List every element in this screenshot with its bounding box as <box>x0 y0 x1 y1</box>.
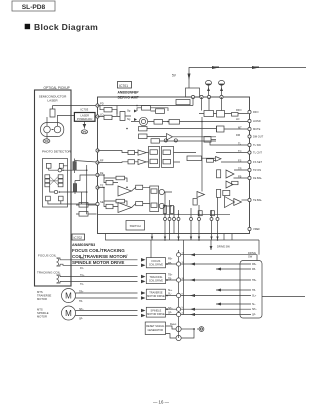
svg-text:SPINDLE: SPINDLE <box>37 311 49 315</box>
left pin P4 <box>96 173 99 176</box>
photodiode A <box>46 163 51 168</box>
left pin P1 <box>96 104 99 107</box>
comparator2 <box>226 181 233 188</box>
sled long box <box>187 156 221 162</box>
defect comparator <box>226 170 234 178</box>
svg-text:TL CNT: TL CNT <box>253 151 262 155</box>
svg-text:DM: DM <box>236 133 240 137</box>
svg-text:— 16 —: — 16 — <box>153 400 170 405</box>
svg-text:SP+: SP+ <box>252 308 257 311</box>
semiconductor laser label <box>39 95 67 103</box>
vertical bus right of drivers <box>178 250 180 338</box>
long lines to connector <box>181 264 251 315</box>
regulator block inside top <box>176 100 190 105</box>
svg-text:RFO: RFO <box>253 110 258 114</box>
left pin P3a <box>96 149 99 152</box>
tracking amp triangle <box>118 203 132 213</box>
transistor Q1 <box>117 106 131 121</box>
svg-text:TB+: TB+ <box>252 279 257 282</box>
connector reset out <box>197 327 204 332</box>
focus coil drive block <box>146 258 165 268</box>
svg-text:TE BAL: TE BAL <box>253 198 262 202</box>
EQ resistor r5 <box>154 120 163 125</box>
svg-text:MOTOR DRIVE: MOTOR DRIVE <box>147 313 165 316</box>
left pin labels <box>100 102 104 205</box>
VCA amp circle <box>131 117 154 125</box>
traverse motor M1 <box>37 289 76 303</box>
bus drop right to connector <box>258 240 260 255</box>
focus amp triangle <box>118 186 132 196</box>
svg-text:POWER ADJ: POWER ADJ <box>77 117 93 121</box>
wire spindle - <box>76 315 138 317</box>
filter block on +B <box>186 88 200 97</box>
defect hold rect <box>151 139 160 143</box>
wire traverse - <box>76 297 138 299</box>
sig labels <box>127 111 131 122</box>
right pin column with labels <box>248 110 251 230</box>
svg-text:FC+: FC+ <box>80 257 85 260</box>
left pin P5 <box>96 186 99 189</box>
tracking coil drive block <box>146 273 165 283</box>
photodiode E <box>46 196 51 201</box>
defect cap <box>217 170 221 178</box>
wires mid band <box>98 151 197 163</box>
svg-text:SP-: SP- <box>168 312 172 315</box>
wires focus path <box>98 175 150 191</box>
svg-text:LD: LD <box>100 113 103 117</box>
capacitor C702 <box>219 80 225 97</box>
wires tracking path <box>98 188 150 208</box>
svg-text:FB+: FB+ <box>168 258 173 261</box>
svg-text:RFO: RFO <box>236 108 241 112</box>
resistor R701 <box>73 159 77 174</box>
IC702 label <box>72 234 128 265</box>
capacitor C701 <box>206 80 212 97</box>
wire PD array out1 <box>50 187 87 194</box>
svg-text:SE: SE <box>100 200 104 204</box>
+B supply line top <box>172 66 306 88</box>
svg-text:SPINDLE: SPINDLE <box>151 310 162 313</box>
svg-text:RESET SIGNAL: RESET SIGNAL <box>146 325 165 328</box>
att block <box>204 137 216 143</box>
cap C10 <box>164 139 167 142</box>
svg-text:AN8803NFB3: AN8803NFB3 <box>72 243 95 247</box>
resistor R702 <box>73 181 77 195</box>
svg-text:SP+: SP+ <box>79 308 84 311</box>
svg-text:RF: RF <box>100 159 104 163</box>
svg-text:TRACKING COIL: TRACKING COIL <box>37 271 61 275</box>
svg-text:FB-: FB- <box>168 262 172 265</box>
top pin T2 <box>200 95 203 98</box>
internal bottom pins circles <box>164 218 220 221</box>
svg-text:TR ON: TR ON <box>253 168 261 172</box>
focus hold amp <box>138 150 146 155</box>
svg-text:FE: FE <box>100 171 104 175</box>
transistor Q703 <box>166 323 182 332</box>
internal vertical drops <box>165 192 218 218</box>
switch block <box>126 221 145 231</box>
resistor bottom r3 <box>163 206 166 214</box>
drive sw label2 <box>248 251 256 259</box>
svg-text:LASER: LASER <box>47 99 58 103</box>
junction dots bus <box>164 239 218 241</box>
resistor R704 <box>79 212 88 217</box>
RF amp resistor 2 <box>104 115 112 119</box>
wire R702 to pin <box>75 175 97 181</box>
svg-text:LD/SD: LD/SD <box>253 119 261 123</box>
svg-text:TB-: TB- <box>168 277 172 280</box>
top pin T3 <box>207 95 210 98</box>
drive sw line <box>181 255 257 261</box>
left pin P2 <box>96 115 99 118</box>
wires right area verticals <box>193 97 222 192</box>
servo gain rect A <box>128 150 135 154</box>
svg-text:SP+: SP+ <box>168 307 173 310</box>
amp A2 <box>167 134 173 141</box>
sub box EQ2 <box>162 146 174 167</box>
svg-text:DRIVE SW: DRIVE SW <box>217 245 230 249</box>
junction dot reset <box>193 328 195 330</box>
svg-text:TRAVERSE: TRAVERSE <box>149 292 163 295</box>
svg-text:SP-: SP- <box>252 314 256 317</box>
svg-text:LASER: LASER <box>80 113 89 117</box>
IC701 label servo amp <box>118 82 140 100</box>
pin numbers on bus <box>182 253 185 315</box>
sig arrows <box>134 110 137 122</box>
svg-text:FOCUS COIL: FOCUS COIL <box>38 254 57 258</box>
wire sled out <box>262 296 305 298</box>
svg-text:COIL DRIVE: COIL DRIVE <box>149 264 163 267</box>
wire PD F out <box>61 166 68 204</box>
wire focus coil + <box>60 259 138 261</box>
svg-text:FB+: FB+ <box>252 263 257 266</box>
focus coil <box>38 254 60 267</box>
svg-text:TB-: TB- <box>252 289 256 292</box>
wire APC bottom to connector <box>83 121 85 128</box>
svg-text:PHOTO DETECTOR: PHOTO DETECTOR <box>42 150 72 154</box>
wire laser anode to APC <box>47 106 97 140</box>
servo gain rect B <box>128 160 135 164</box>
tracking loop feedback <box>116 199 125 203</box>
svg-text:MOTOR DRIVE: MOTOR DRIVE <box>147 295 165 298</box>
wire rf chain to right <box>163 121 249 123</box>
transistor T6 <box>159 203 164 208</box>
svg-text:TR+: TR+ <box>79 290 84 293</box>
vertical element <box>217 189 221 197</box>
transistor Q704 <box>166 329 195 341</box>
resistor R703 <box>79 203 88 208</box>
svg-text:AN8803NFBP: AN8803NFBP <box>118 90 140 94</box>
IC703 laser power adj <box>74 108 95 122</box>
wire PD A out <box>49 168 87 172</box>
arrow APC down <box>83 124 87 128</box>
svg-text:IC702: IC702 <box>74 236 83 240</box>
photodiode F <box>59 196 64 201</box>
EQ resistor r6 <box>169 120 180 125</box>
svg-text:PD: PD <box>100 102 104 106</box>
svg-text:SWITCH: SWITCH <box>130 224 141 228</box>
cap C11 <box>174 139 177 142</box>
FDM sub box <box>150 186 159 212</box>
svg-text:SL+: SL+ <box>168 289 173 292</box>
photodiode B <box>59 163 63 168</box>
rects right mid <box>232 181 238 184</box>
resistor bottom r1 <box>198 211 202 216</box>
IC701 servo amp main box <box>98 97 250 234</box>
wire eq <box>147 129 216 137</box>
svg-text:TRACKING: TRACKING <box>149 276 162 279</box>
svg-text:TR-: TR- <box>79 300 83 303</box>
RF amp I-V resistor <box>104 108 112 112</box>
wire defect <box>160 137 217 141</box>
svg-text:TRAVERSE: TRAVERSE <box>37 294 51 298</box>
laser diode package <box>41 123 64 137</box>
tracking hold amp <box>138 159 146 164</box>
spindle motor M2 <box>37 306 76 320</box>
focus eq rect <box>139 127 148 131</box>
wire vertical bus left of IC <box>86 165 88 214</box>
wire tracking coil - <box>60 280 138 282</box>
arrows on drive lines <box>190 253 221 316</box>
svg-text:MTS: MTS <box>37 308 43 312</box>
wire PD E out <box>48 201 97 204</box>
wire bottom left feeds <box>76 205 97 214</box>
svg-text:TL SW: TL SW <box>253 143 261 147</box>
svg-text:FB-: FB- <box>252 268 256 271</box>
focus error resistor <box>106 180 113 184</box>
svg-text:VREF: VREF <box>253 227 260 231</box>
svg-text:M: M <box>65 292 72 301</box>
svg-text:DM OUT: DM OUT <box>253 135 264 139</box>
svg-text:FOCUS: FOCUS <box>152 260 161 263</box>
svg-text:SL+: SL+ <box>252 295 257 298</box>
focus eq rect2 <box>139 134 148 139</box>
svg-text:FC-: FC- <box>80 267 84 270</box>
svg-text:DRIVE: DRIVE <box>248 251 256 255</box>
long wire row y214 <box>98 213 231 215</box>
input arrows drive ICs <box>141 258 146 317</box>
top pin T1 <box>191 95 194 98</box>
wire APC out <box>95 116 97 118</box>
svg-text:FS SET: FS SET <box>253 160 262 164</box>
heading Block Diagram <box>25 22 98 32</box>
focus drive rect <box>136 185 143 189</box>
svg-text:GENERATOR: GENERATOR <box>147 329 163 332</box>
svg-text:TE: TE <box>100 184 104 188</box>
svg-text:LD: LD <box>236 117 239 121</box>
sub box EQ1 <box>149 146 160 167</box>
connector CN laser gnd <box>43 139 50 143</box>
wire spindle + <box>76 310 138 312</box>
svg-text:MUTE: MUTE <box>253 127 261 131</box>
svg-text:FOCUS COIL/TRACKING: FOCUS COIL/TRACKING <box>72 248 125 253</box>
resistor bottom r2 <box>210 211 214 216</box>
resistor bottom r4 <box>170 206 173 214</box>
tracking error resistor <box>106 204 113 208</box>
svg-text:MOTOR: MOTOR <box>37 297 47 301</box>
svg-text:SP-: SP- <box>79 318 83 321</box>
small amp left <box>197 192 205 198</box>
bottom stubs below box <box>152 234 232 241</box>
wire traverse + <box>76 292 138 294</box>
bus line under box <box>106 234 260 241</box>
svg-text:SPINDLE MOTOR DRIVE: SPINDLE MOTOR DRIVE <box>72 260 124 265</box>
svg-text:SL-PD8: SL-PD8 <box>22 4 46 11</box>
tracking drive rect <box>136 202 143 206</box>
tracking amp out <box>225 197 242 208</box>
wire labels driver outs <box>168 258 173 315</box>
bias rect above push-pull <box>223 190 230 195</box>
wire reset to connector <box>181 328 195 330</box>
model header box SL-PD8 <box>12 1 55 11</box>
photodiode array center <box>45 175 63 187</box>
lpf block <box>217 126 249 132</box>
svg-text:IC701: IC701 <box>119 84 128 88</box>
svg-text:Block Diagram: Block Diagram <box>34 22 98 32</box>
svg-text:IC703: IC703 <box>81 108 89 112</box>
bus drop mid <box>210 240 212 250</box>
wire rf <box>98 106 194 117</box>
tracking coil <box>37 271 61 284</box>
top pin T4 <box>220 95 223 98</box>
wire focus coil - <box>60 264 138 265</box>
traverse motor drive block <box>146 289 165 299</box>
connector circles on bus <box>177 253 181 317</box>
wires fdm out <box>159 191 172 206</box>
bus drop left <box>150 240 152 258</box>
left pin P6 <box>96 202 99 205</box>
connector CN702 <box>240 261 262 319</box>
svg-text:SL-: SL- <box>252 303 256 306</box>
comp block <box>199 111 248 118</box>
svg-text:MTS: MTS <box>37 290 43 294</box>
reset signal generator block <box>145 322 165 335</box>
wire tracking coil + <box>60 276 138 278</box>
svg-text:MOTOR: MOTOR <box>37 315 47 319</box>
optical pickup enclosure <box>35 86 72 286</box>
stub arrows into bus <box>151 237 219 240</box>
spindle motor drive block <box>146 307 165 317</box>
driver out wires <box>166 264 179 315</box>
photo detector block <box>42 150 72 208</box>
svg-text:COIL DRIVE: COIL DRIVE <box>149 279 163 282</box>
svg-text:Reset: Reset <box>170 323 177 326</box>
svg-text:FE BAL: FE BAL <box>253 176 262 180</box>
wire labels left <box>79 257 85 321</box>
vertical rect left of amp <box>193 199 197 206</box>
transistor T5 <box>159 189 164 194</box>
wire vertical aux <box>80 192 82 204</box>
left pin P3 <box>96 161 99 164</box>
svg-text:TC-: TC- <box>80 283 84 286</box>
wire drive sense vertical <box>183 240 185 315</box>
svg-text:OPTICAL PICKUP: OPTICAL PICKUP <box>44 86 70 90</box>
svg-text:TB+: TB+ <box>168 274 173 277</box>
svg-text:SW: SW <box>248 255 253 259</box>
svg-text:M: M <box>65 309 72 318</box>
wire R701 to pin <box>75 161 97 163</box>
laser monitor diode D1 <box>50 106 55 118</box>
svg-text:SL-: SL- <box>168 293 172 296</box>
svg-text:TC+: TC+ <box>80 274 85 277</box>
feedback resistor loop top <box>137 106 168 114</box>
connector CN APC <box>81 130 87 134</box>
junction dots internal <box>103 105 203 215</box>
focus loop feedback <box>116 176 125 180</box>
arrow bus mid <box>210 246 213 250</box>
